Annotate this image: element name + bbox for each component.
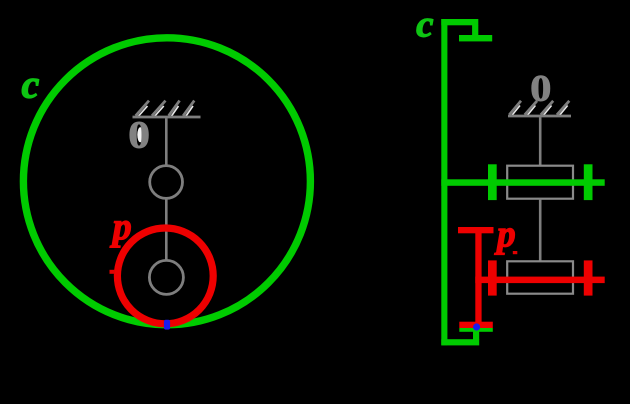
bearing block 1 (gray rectangle) [507, 166, 573, 199]
revolute joint P (left) [149, 260, 183, 294]
ring gear tooth tick right [584, 164, 593, 200]
label p (left) [110, 221, 131, 247]
label c (left) [22, 79, 39, 98]
ring gear c link: top stub [472, 25, 478, 36]
ring gear c shaft (horizontal) [441, 179, 604, 186]
planet p bottom bar (red) [459, 322, 493, 328]
planet gear p (front view circle) [117, 228, 213, 324]
fixed support hatching (right) [512, 106, 568, 116]
ring gear tooth tick left [488, 164, 497, 200]
planet gear tooth tick left (red) [488, 260, 497, 295]
planet p crank: top T bar (red) [458, 227, 494, 233]
frame link 0 middle segment (right) [539, 199, 542, 262]
pitch point marker (left, blue) [164, 320, 170, 330]
planet p crank: vertical bar (red) [475, 227, 481, 328]
bearing block 2 (gray rectangle) [507, 261, 573, 293]
label c (right) [417, 19, 433, 37]
pitch point marker (right, blue) [473, 323, 480, 330]
planet gear tooth tick right (red) [584, 260, 593, 295]
fixed support hatching (left) [138, 106, 193, 117]
support hatch strokes (left) [133, 101, 201, 117]
planet p shaft (horizontal red) [475, 277, 604, 284]
label 0 (right) [532, 76, 550, 101]
label 0 (left, white counter) [137, 127, 143, 142]
ring gear c link: top horizontal bar [441, 19, 478, 25]
ring gear c link: bottom horizontal bar [441, 339, 479, 345]
link 0 upper segment (left) [165, 118, 168, 165]
mesh bar bottom (green) [459, 328, 493, 332]
ring gear c (front view circle) [23, 38, 310, 325]
support hatch strokes (right) [508, 101, 571, 116]
label p (right) [494, 228, 514, 254]
revolute joint O (left) [150, 166, 183, 199]
ring gear c link: main vertical bar [441, 19, 447, 345]
link lower segment (left) [165, 199, 168, 261]
ring gear c link: bottom stub [473, 328, 479, 340]
tick mark near label p (right) [513, 251, 518, 254]
frame link 0 upper segment (right) [539, 117, 542, 166]
ring gear c: top tooth bar [459, 35, 492, 41]
tick mark near label p (left) [110, 270, 116, 274]
